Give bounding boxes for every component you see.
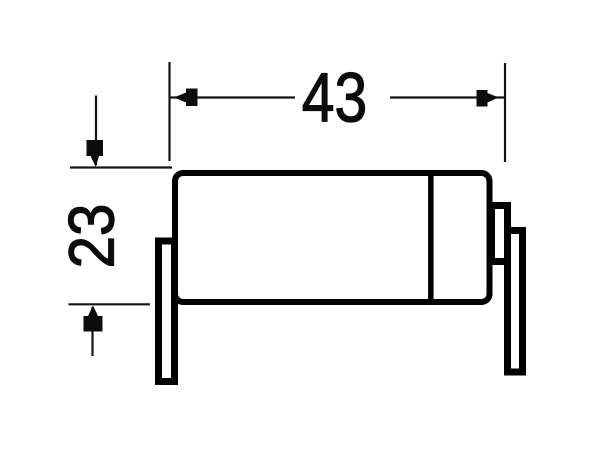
arrowhead lower of dim 23 (points up): [84, 306, 103, 332]
arrowhead upper of dim 23 (points down): [87, 140, 104, 167]
left solder tab: [159, 241, 175, 382]
extension line top of dim 23: [70, 166, 172, 168]
arrowhead left of dim 43: [174, 89, 198, 107]
dimension leader line 23 upper: [95, 96, 97, 166]
extension line left of dim 43: [168, 62, 170, 161]
body divider line near positive end: [428, 172, 434, 302]
arrowhead right of dim 43: [477, 90, 499, 107]
extension line right of dim 43: [504, 63, 506, 162]
battery body outline: [175, 173, 490, 302]
extension line bottom of dim 23: [69, 303, 151, 305]
dimension line 43 left segment: [170, 96, 295, 98]
right solder tab: [508, 231, 523, 373]
dimension leader line 23 lower: [91, 307, 93, 356]
dimension line 43 right segment: [390, 96, 504, 98]
svg-text:43: 43: [302, 58, 367, 137]
positive terminal button: [492, 206, 508, 262]
svg-text:23: 23: [56, 204, 127, 269]
